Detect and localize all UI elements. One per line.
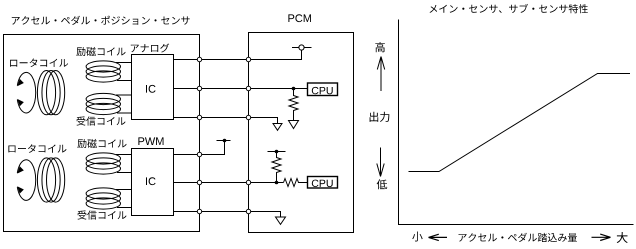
junction dot: R2 supply <box>275 150 279 154</box>
label: excitation coil L3 (励磁コイル) <box>77 139 126 148</box>
rotor coil 2 rotation arc <box>17 160 35 201</box>
wire: L3 bottom lead to IC2 <box>117 172 132 174</box>
CPU U2 box (analog) <box>308 83 338 96</box>
wire: IC1 pin A (power) to sensor connector <box>174 59 200 61</box>
wire: test point left stub <box>292 47 299 49</box>
label CPU (U4) <box>312 180 333 187</box>
wire: sensor connector to PCM connector (net SIG2) <box>200 182 249 184</box>
rotor coil 2 arrowhead bottom <box>17 186 24 193</box>
connector pin (sensor, net SIG2) <box>197 180 201 184</box>
ground (net GND2) <box>276 217 286 224</box>
connector pin (PCM, net GND2) <box>246 209 250 213</box>
connector pin (sensor, net VCC1) <box>197 57 201 61</box>
rotor coil 1 arrowhead top <box>17 79 24 86</box>
resistor R1 (pull-down on SIG1) <box>289 89 298 121</box>
label: rotor coil 2 (ロータコイル) <box>8 144 66 153</box>
wire: sensor connector to PCM connector (net SIG1) <box>200 88 249 90</box>
connector pin (sensor, net GND2) <box>197 209 201 213</box>
wire: sensor connector to PCM connector (net GND1) <box>200 117 249 119</box>
wire: net VCC1 inside PCM to test point <box>249 50 302 59</box>
wire: sensor connector to PCM connector (net VCC1) <box>200 59 249 61</box>
receiver coil L4 winding <box>86 188 120 209</box>
label CPU (U2) <box>312 87 333 94</box>
label PWM <box>138 137 163 145</box>
sensor box outline <box>4 35 200 232</box>
connector pin (sensor, net VCC2) <box>197 152 201 156</box>
connector pin (PCM, net VCC1) <box>246 57 250 61</box>
excitation coil L3 winding <box>86 153 120 174</box>
wire: L2 bottom lead to IC1 <box>117 112 132 114</box>
rotor coil 1 winding <box>37 71 64 115</box>
IC U1 (analog) box <box>132 55 174 120</box>
label 高 (high) <box>375 42 385 52</box>
label: pedal depression amount (アクセル・ペダル踏込み量) <box>459 233 577 242</box>
rotor coil 1 arrowhead bottom <box>17 99 24 106</box>
junction dot: SIG1 / R1 node <box>292 87 296 91</box>
connector pin (sensor, net GND1) <box>197 115 201 119</box>
connector pin (PCM, net SIG1) <box>246 86 250 90</box>
rotor coil 1 rotation arc <box>17 72 35 113</box>
wire: L1 bottom lead to IC1 <box>117 80 132 82</box>
resistor R3 (series to CPU) <box>284 179 308 187</box>
receiver coil L2 winding <box>86 93 120 114</box>
connector pin (sensor, net SIG1) <box>197 86 201 90</box>
ground (net GND1) <box>273 124 282 131</box>
test point connector ring (wire 1) <box>299 45 304 50</box>
ground (below R1) <box>289 121 299 129</box>
wire: net GND2 inside PCM to ground <box>249 212 281 218</box>
wire: L1 top lead to IC1 <box>116 62 132 64</box>
power rail bar (pull-up supply) <box>268 151 286 153</box>
label 低 (low) <box>377 179 388 189</box>
wire: L4 bottom lead to IC2 <box>117 207 132 209</box>
label: excitation coil L1 (励磁コイル) <box>76 47 125 56</box>
wire: L4 top lead to IC2 <box>116 189 132 191</box>
junction dot: SIG2 / R2 node <box>275 181 279 185</box>
Y axis up arrow <box>377 57 384 92</box>
wire: net GND1 inside PCM to ground <box>249 118 278 124</box>
wire: IC2 pin A (power) to sensor connector <box>174 154 200 156</box>
wire: IC1 pin C (ground) to sensor connector <box>174 117 200 119</box>
wire: sensor connector to supply tap (net VCC2) <box>200 141 225 155</box>
sensor output characteristic curve <box>409 74 631 172</box>
wire: sensor connector to PCM connector (net GND2) <box>200 211 249 213</box>
graph Y axis <box>398 20 400 225</box>
label: アナログ (analog) <box>131 44 169 53</box>
label IC (U1) <box>146 85 156 93</box>
graph X axis <box>398 224 634 226</box>
label 小 (small) <box>412 232 422 242</box>
wire: IC2 pin C (ground) to sensor connector <box>174 211 200 213</box>
label IC (U3) <box>146 177 156 185</box>
wire: net SIG2 inside PCM to R3 <box>249 182 284 184</box>
label: accelerator pedal position sensor (アクセル・ペダル・ポジション・センサ) <box>12 16 190 25</box>
label: receiver coil L4 (受信コイル) <box>78 210 127 219</box>
wire: net SIG1 inside PCM to CPU <box>249 88 308 90</box>
PCM box outline <box>249 33 354 233</box>
IC U3 (PWM) box <box>132 149 174 216</box>
X axis right arrow <box>592 234 611 240</box>
power rail bar (net VCC2) <box>217 140 231 142</box>
wire: IC2 pin B (signal) to sensor connector <box>174 182 200 184</box>
connector pin (PCM, net GND1) <box>246 115 250 119</box>
label 出力 (output) <box>370 112 390 122</box>
X axis left arrow <box>429 234 448 240</box>
rotor coil 2 arrowhead top <box>17 166 24 173</box>
label 大 (large) <box>617 232 628 243</box>
wire: IC1 pin B (signal) to sensor connector <box>174 88 200 90</box>
Y axis down arrow <box>377 148 384 177</box>
rotor coil 2 winding <box>37 158 64 202</box>
label: rotor coil 1 (ロータコイル) <box>10 59 68 68</box>
label PCM <box>288 14 311 22</box>
CPU U4 box (PWM) <box>308 177 338 189</box>
excitation coil L1 winding <box>86 61 120 82</box>
wire: L3 top lead to IC2 <box>116 154 132 156</box>
label: receiver coil L2 (受信コイル) <box>77 116 126 125</box>
junction dot: VCC2 tap <box>223 139 227 143</box>
wire: L2 top lead to IC1 <box>116 94 132 96</box>
connector pin (PCM, net SIG2) <box>246 180 250 184</box>
resistor R2 (pull-up on SIG2) <box>272 152 281 183</box>
graph title (メイン・センサ、サブ・センサ特性) <box>430 4 588 13</box>
wire: test point right stub <box>304 47 311 49</box>
